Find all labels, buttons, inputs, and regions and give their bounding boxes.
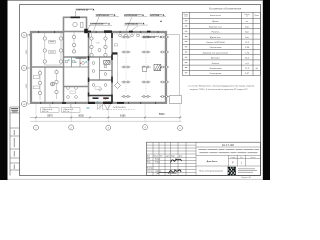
interior wall y67 [30,66,64,68]
entrance V leader [105,104,111,110]
svg-text:Состав.: Состав. [147,171,153,173]
left margin vertical labels [14,130,15,169]
svg-text:Автомат: Автомат [211,57,219,60]
label box room A1 a [49,40,56,43]
room A2 wiring column [39,69,41,100]
interior dark wall y95.5 [89,95,113,97]
svg-text:Листов: Листов [251,157,256,159]
label box text marks [50,41,55,52]
luminaire C2 [72,43,75,46]
luminaire L1 [43,37,46,40]
svg-text:h=2,5 м: h=2,5 м [63,111,70,113]
svg-text:Заземление: Заземление [209,68,222,70]
svg-text:3000: 3000 [78,115,84,118]
axis circle row C [22,101,31,106]
corridor wiring column [73,33,75,54]
annotation below right wall [143,36,162,39]
svg-text:ПФ: ПФ [97,42,100,45]
fluorescent bar F35 [160,96,169,98]
junction circle-cross [51,82,55,86]
svg-text:Лист: Лист [160,155,164,157]
dimension ticks [35,116,181,118]
top annotation 2 [94,14,120,31]
fluorescent bar F13 [122,66,131,68]
luminaire L9 [38,91,41,94]
top scan edge line [8,0,263,2]
svg-text:к-т: к-т [246,21,249,23]
legend rows text [203,21,259,75]
luminaire L12 [55,90,58,93]
dashed annotation line [103,108,135,110]
vestibule luminaire [73,22,77,26]
svg-text:4шт: 4шт [245,26,249,28]
interior wall y86.5 [64,86,89,88]
svg-text:16-17-ЭО: 16-17-ЭО [222,143,235,147]
title block outer [147,142,261,175]
bottom axis circle 2 [69,125,74,130]
svg-text:Наименование: Наименование [210,15,221,17]
room B2 luminaires [92,62,95,65]
bottom scan edge line [8,178,263,181]
fluorescent bar F14 [122,81,131,83]
cyan annotation mark [87,101,99,108]
leader to box1 [49,104,51,108]
svg-text:Светильник: Светильник [209,47,221,49]
hall top small luminaires [119,34,122,37]
annotation triangle near axis5 [160,20,162,22]
svg-text:Иванов: Иванов [155,159,160,161]
logo checkered block [228,167,236,176]
svg-text:1xЛПО2х36 Δ: 1xЛПО2х36 Δ [113,106,126,109]
entrance steps [97,104,103,110]
svg-text:выданы ТУ80 г. 2-ой котельной: выданы ТУ80 г. 2-ой котельной и проектом… [190,88,248,91]
bottom axis circle 1 [34,125,39,130]
top annotation 4 [150,14,167,17]
terrace side line [179,35,181,96]
junction box JB1 [98,49,101,52]
svg-text:Формат А3: Формат А3 [241,176,251,179]
svg-text:План электроосвещения: План электроосвещения [199,171,223,173]
room A4 label box [70,91,76,94]
bath inner wall y67b [64,66,89,68]
svg-text:Дата: Дата [179,155,182,157]
fluorescent bar F21 [142,36,151,38]
legend symbol marks col1 [185,20,188,73]
svg-text:Коробка отв. распаячная: Коробка отв. распаячная [203,52,229,54]
fluorescent bar F25 [142,96,151,98]
annotation density strips [76,9,163,38]
bottom extension lines [36,104,180,122]
left vertical dimension line [26,35,28,104]
porch right [170,96,182,104]
bath label text strip [76,58,87,59]
bottom axis circle 3 [106,125,111,130]
hall dashed wire column 2 [145,33,147,100]
interior wall x88.5 [88,32,90,104]
bottom overall dimension line [30,120,182,122]
bath luminaire B3 [82,62,85,65]
luminaire L11 [55,80,58,83]
radiator hatched block [104,60,110,64]
axis circle row B [22,65,31,70]
svg-text:6шт: 6шт [245,32,249,34]
luminaire [131,34,134,37]
room A1 bottom wire [45,64,61,66]
svg-text:5890: 5890 [159,113,165,116]
fluorescent bar F22 [142,51,151,53]
fluorescent bar F32 [160,51,169,53]
bath cyan fixture marks [68,57,76,62]
left scan band [0,0,8,180]
right section lines [196,147,261,176]
hall dashed wire column 1 [125,33,127,100]
entrance dark label row [93,97,99,99]
hall dashed wire column 3 [164,33,166,100]
fluorescent bar F23 [142,66,151,68]
svg-text:ГИП: ГИП [147,159,150,161]
cyan mark corridor [85,62,87,63]
organization text lines [238,168,257,172]
svg-text:Кол-во,: Кол-во, [244,14,250,16]
hall diamond symbol [115,83,121,89]
bottom axis circle 4 [143,125,148,130]
room A1 wiring column 2 [60,33,62,66]
luminaire L10 [55,70,58,73]
luminaire L6 [59,60,62,63]
svg-text:Изм: Изм [147,155,150,157]
signature scribble 2 [169,170,182,174]
entrance dark label row2 [103,97,109,99]
luminaire [99,88,102,91]
interior wall y80 [89,79,113,81]
luminaire C3 [72,50,75,53]
svg-text:Щиток осв.: Щиток осв. [210,37,222,39]
title block header tiny text [147,154,182,172]
luminaire L5 [59,49,62,52]
signature scribble 1 [171,159,182,163]
room B1 wiring columns [91,33,93,56]
fluorescent bar F15 [122,96,131,98]
legend table grid [183,12,261,75]
luminaire [104,84,107,87]
label box room A2 a [33,76,39,79]
bath luminaire B1 [65,60,68,63]
project description lines [199,149,260,153]
note paragraph below legend [187,86,255,91]
fluorescent bar F33 [160,66,169,68]
page background [0,0,270,180]
interior wall y57 [64,56,113,58]
hall top dashed line [114,33,167,35]
fluorescent bar F34 [160,81,169,83]
title block left grid horizontals [147,145,197,172]
svg-text:Подп.: Подп. [171,155,176,157]
svg-text:Сидоров: Сидоров [155,171,161,173]
terrace top line [167,34,180,36]
annotation box 2 below plan [62,108,81,113]
svg-text:шт: шт [246,16,248,18]
right scan band [263,0,270,180]
svg-text:симв.: симв. [184,16,189,18]
svg-text:Пров.: Пров. [147,162,152,164]
luminaire M5 [104,45,107,48]
luminaire [125,34,128,37]
luminaire [104,65,107,68]
luminaire [137,34,140,37]
svg-text:Кабель: Кабель [212,63,220,65]
top annotation 3 [124,14,148,31]
room A3 wiring column [56,69,58,99]
hall radiator hatched block [154,64,161,70]
dark segments bottom wall [62,102,124,104]
hall square symbol [142,67,146,71]
fluorescent bar F11 [122,36,131,38]
svg-text:6180: 6180 [120,115,126,118]
svg-text:Лист: Лист [240,157,244,159]
label box room A1 b [49,51,56,54]
room A4 luminaires [67,87,70,90]
svg-text:1хЛПО2х36: 1хЛПО2х36 [143,37,156,39]
bath inner wall x71.5 [71,57,73,67]
top annotation 1 [76,9,95,17]
svg-text:5970: 5970 [47,115,53,118]
interior wall x45 [44,67,46,104]
room B3 luminaires [92,84,95,87]
svg-text:Розетка: Розетка [211,32,220,34]
luminaire [104,73,107,76]
vestibule cabinet [81,22,83,27]
dark wall segments top wall [87,30,133,32]
vestibule walls [64,17,87,31]
fluorescent bar F12 [122,51,131,53]
dark segments wall x112 [111,33,113,104]
dark segments wall x88.5 [88,33,90,97]
luminaire [75,96,78,99]
luminaire M2 [90,45,93,48]
svg-text:h=2,5 м: h=2,5 м [42,111,49,113]
hall wire to diamond [117,55,119,83]
luminaire [67,96,70,99]
window tick marks top wall [38,31,159,33]
svg-text:Освещение: Освещение [210,73,223,75]
room B3 label [95,87,100,89]
svg-text:Стадия: Стадия [230,157,235,159]
axis circle row A [22,32,31,37]
dimension numbers [47,113,165,118]
svg-text:Петров: Петров [155,162,160,164]
left margin column dividers [10,107,20,170]
annotation box 1 below plan [41,108,60,113]
top annotation row3 b [124,22,148,25]
luminaire L7 [38,71,41,74]
luminaire L2 [43,49,46,52]
label box room A2 b [33,86,39,89]
drawing frame [20,5,261,176]
bottom dimension chain line [30,116,182,118]
room A1 wiring column [44,33,46,66]
title block left grid verticals [153,142,196,175]
svg-text:Дом быта: Дом быта [207,160,218,163]
svg-text:Прим.: Прим. [254,15,259,17]
building outline walls [30,31,167,104]
dark wall segment extra [147,31,151,33]
svg-text:1хНПП03-60: 1хНПП03-60 [76,10,90,12]
top annotation row3 a [87,23,112,31]
window tick marks bottom wall [40,102,156,104]
interior wall x112 [111,32,113,104]
bottom axis circle 5 [178,126,183,131]
luminaire M4 [104,37,107,40]
fluorescent bar F31 [160,36,169,38]
signature scribble 3 [157,173,177,175]
luminaire M1 [90,37,93,40]
leader diagonal to hall [131,26,139,31]
svg-text:Щиток: Щиток [212,21,218,23]
wire [105,33,107,56]
interior wall x63 [63,32,65,104]
svg-text:Н.контр: Н.контр [147,168,153,170]
svg-text:Выключ. 1кл: Выключ. 1кл [209,26,222,28]
left margin column line [9,107,11,176]
svg-text:Обозн.: Обозн. [183,14,189,16]
bath inner wall x80 [79,57,81,67]
left margin top box label text [11,108,18,112]
bath luminaire B2 [72,60,75,63]
inner wall x99 [99,57,101,80]
svg-text:1шт: 1шт [245,37,249,39]
leader to box2 [70,104,72,108]
vestibule lintel dark [71,17,81,19]
stage headers [230,157,255,159]
inner wall y70.5 [100,70,113,72]
luminaire M3 [90,53,93,56]
wall stub in hall [112,52,118,54]
svg-text:Условные обозначения: Условные обозначения [209,6,242,10]
svg-text:- по плану "Внутреннее электро: - по плану "Внутреннее электрооборудован… [187,86,255,88]
svg-text:Светил. НПП03-60: Светил. НПП03-60 [206,42,226,44]
luminaire [92,70,95,73]
hall small label [114,44,117,46]
luminaire C1 [72,35,75,38]
svg-text:Кол.уч: Кол.уч [154,155,159,157]
luminaire L4 [59,37,62,40]
vestibule corner wall blob [84,29,88,33]
fluorescent bar F24 [142,81,151,83]
luminaire L8 [38,81,41,84]
luminaire L3 [43,60,46,63]
red specks [80,63,106,100]
legend header texts [183,14,259,18]
luminaire [75,87,78,90]
luminaire M6 [104,53,107,56]
